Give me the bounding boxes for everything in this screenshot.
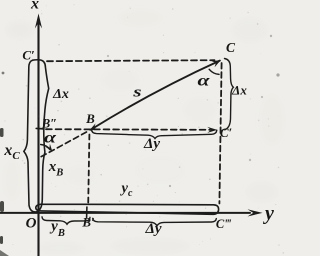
svg-text:C′: C′ <box>22 48 35 63</box>
svg-text:Δy: Δy <box>144 221 161 237</box>
svg-text:x: x <box>30 0 39 13</box>
dashed line C'-C (top horizontal) <box>47 60 215 61</box>
arrowhead of s at B <box>89 123 99 130</box>
x-axis <box>37 20 39 256</box>
svg-text:B″: B″ <box>41 117 57 131</box>
arrowhead of direction-angle arc <box>46 144 53 152</box>
brace Delta-y under y-axis from B' to C''' <box>93 218 217 226</box>
svg-text:C′: C′ <box>220 125 233 140</box>
stadium loop around y-axis segment O-C''' (y_c) <box>36 204 219 214</box>
stadium loop around x-axis segment O-C' (x_C) <box>24 60 49 212</box>
angle arc alpha at C <box>209 69 219 74</box>
y-axis arrowhead <box>248 209 263 216</box>
dashed line C-C'-C''' (right vertical) <box>219 63 221 204</box>
svg-text:α: α <box>44 129 57 147</box>
line s from B to C <box>91 61 220 130</box>
svg-text:Δx: Δx <box>52 87 69 102</box>
tick B'' on x-axis <box>36 127 44 130</box>
svg-text:y: y <box>263 203 274 225</box>
dashed line B-B' (vertical) <box>88 135 89 205</box>
svg-text:C: C <box>226 40 236 55</box>
arrowhead of s at C <box>211 60 221 67</box>
tick B' on y-axis <box>86 207 88 218</box>
svg-text:B′: B′ <box>81 215 95 230</box>
svg-text:B: B <box>85 111 95 126</box>
svg-text:α: α <box>198 72 211 90</box>
svg-text:s: s <box>132 83 141 99</box>
svg-text:Δx: Δx <box>231 83 247 98</box>
angle arc alpha at x-axis (direction angle) <box>41 145 50 150</box>
x-axis arrowhead <box>35 14 42 29</box>
svg-text:C‴: C‴ <box>216 217 231 231</box>
brace Delta-y under B-C' line <box>92 129 217 138</box>
brace Delta-x right of C-C' vertical <box>225 59 234 130</box>
y-axis <box>0 212 250 214</box>
dashed extension of CB beyond B down to x-axis <box>40 132 87 157</box>
scan specks and edge artifacts <box>0 35 280 256</box>
brace y_B under y-axis from O to B' <box>42 217 90 224</box>
dashed line B''-B-C' (middle horizontal) <box>46 128 210 131</box>
arrowhead at C' end of middle dashed line <box>207 127 217 133</box>
svg-text:O: O <box>26 216 37 232</box>
svg-text:Δy: Δy <box>143 136 160 152</box>
